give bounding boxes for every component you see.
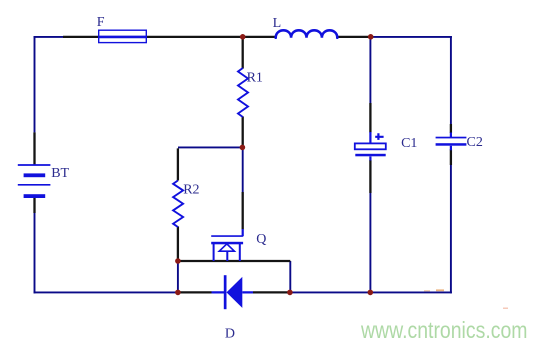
svg-text:L: L (273, 16, 282, 31)
svg-text:C1: C1 (401, 136, 417, 151)
svg-text:www.cntronics.com: www.cntronics.com (360, 317, 527, 343)
svg-text:R2: R2 (183, 182, 199, 197)
svg-text:R1: R1 (247, 70, 263, 85)
svg-text:C2: C2 (467, 135, 483, 150)
svg-text:BT: BT (51, 166, 69, 181)
svg-text:Q: Q (256, 232, 266, 247)
svg-text:D: D (225, 327, 235, 342)
svg-text:F: F (97, 15, 105, 30)
